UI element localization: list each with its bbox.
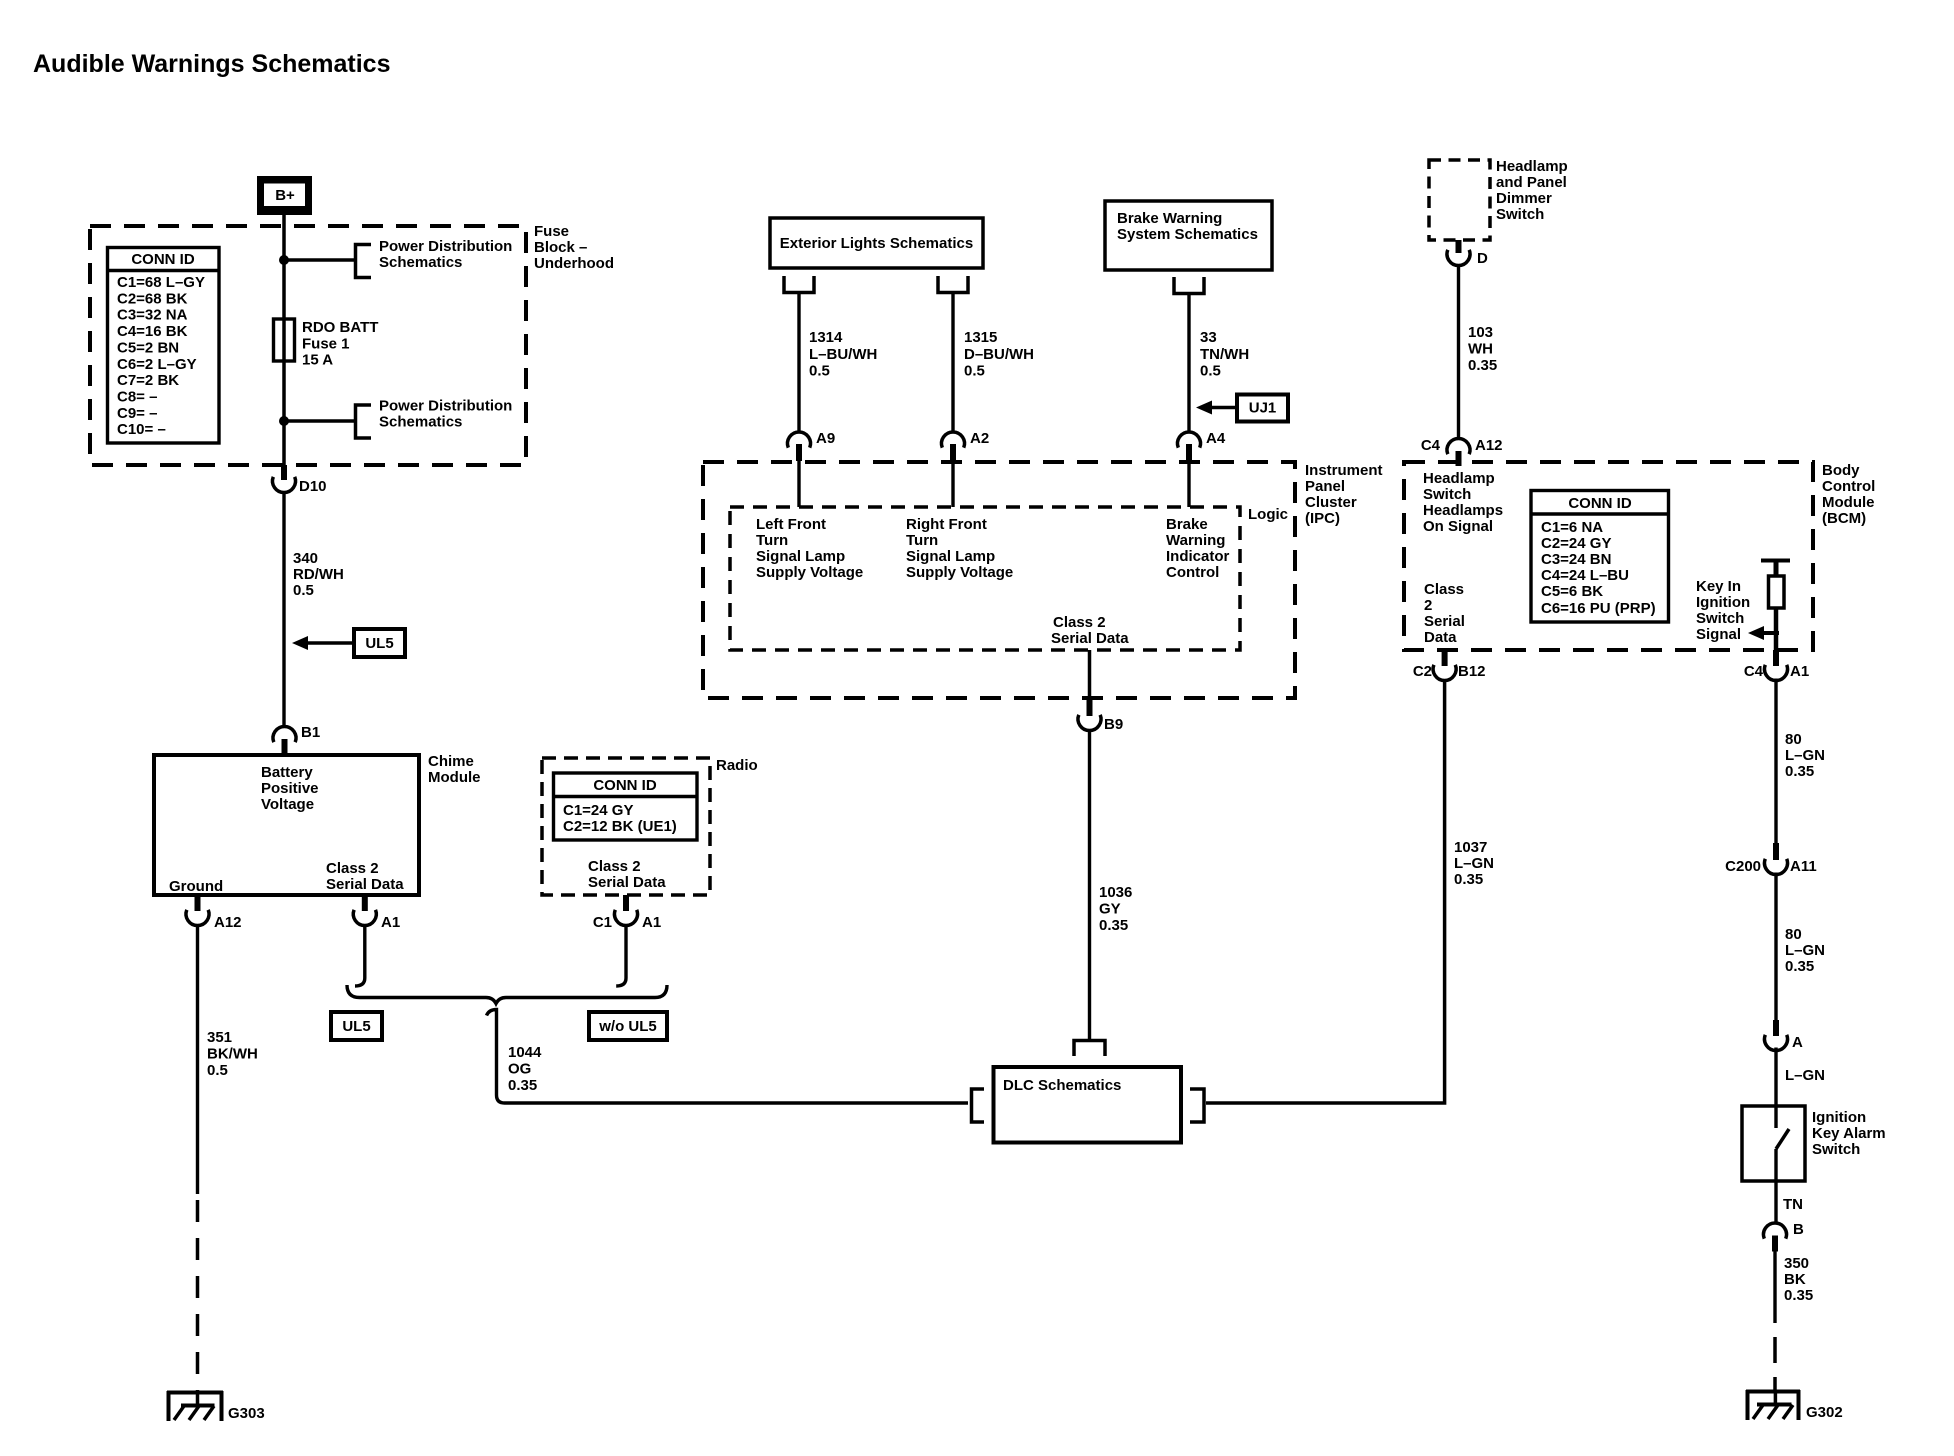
svg-text:103: 103 bbox=[1468, 324, 1493, 341]
dashed ground wire segment bbox=[196, 1200, 200, 1391]
label Power Distribution Schematics 1 bbox=[379, 238, 512, 271]
svg-text:Chime: Chime bbox=[428, 753, 474, 770]
svg-text:A1: A1 bbox=[642, 914, 661, 931]
svg-text:1314: 1314 bbox=[809, 329, 843, 346]
headlamp and panel dimmer switch dashed box bbox=[1429, 160, 1490, 240]
svg-text:340: 340 bbox=[293, 550, 318, 567]
svg-text:C5=6 BK: C5=6 BK bbox=[1541, 583, 1603, 600]
svg-text:Control: Control bbox=[1166, 564, 1219, 581]
svg-text:BK/WH: BK/WH bbox=[207, 1046, 258, 1063]
wire 1315 D-BU/WH bbox=[951, 294, 954, 432]
svg-text:Switch: Switch bbox=[1696, 610, 1744, 627]
fuse block underhood dashed box bbox=[90, 226, 526, 465]
svg-text:C1=68 L–GY: C1=68 L–GY bbox=[117, 274, 205, 291]
svg-text:351: 351 bbox=[207, 1029, 232, 1046]
ground G302 bbox=[1746, 1390, 1843, 1421]
label Power Distribution Schematics 2 bbox=[379, 398, 512, 431]
svg-text:Battery: Battery bbox=[261, 764, 313, 781]
svg-text:Class 2: Class 2 bbox=[1053, 614, 1106, 631]
UL5 option arrow and box bbox=[292, 629, 405, 657]
wire IPC class 2 down to B9 bbox=[1088, 650, 1092, 701]
connector C4/A12 (BCM top) bbox=[1421, 437, 1503, 466]
svg-text:Audible Warnings Schematics: Audible Warnings Schematics bbox=[33, 50, 390, 78]
wire TN out of switch bbox=[1774, 1149, 1777, 1223]
svg-text:A11: A11 bbox=[1790, 858, 1817, 875]
svg-text:CONN ID: CONN ID bbox=[131, 251, 195, 268]
connector B1 bbox=[273, 724, 320, 755]
svg-text:C3=24 BN: C3=24 BN bbox=[1541, 551, 1611, 568]
connector C200/A11 bbox=[1725, 843, 1817, 875]
wire radio A1 down to splice brace bbox=[616, 927, 626, 987]
label Instrument Panel Cluster (IPC) bbox=[1305, 462, 1383, 527]
svg-text:Serial Data: Serial Data bbox=[1051, 630, 1129, 647]
svg-text:D10: D10 bbox=[299, 478, 327, 495]
value label 351 BK/WH 0.5 bbox=[207, 1029, 258, 1079]
label Class 2 Serial Data (radio) bbox=[588, 858, 666, 891]
key in signal arrow bbox=[1748, 626, 1779, 640]
power distribution tab 1 bbox=[356, 245, 372, 278]
label Left Front Turn Signal Lamp Supply Voltage bbox=[756, 516, 863, 581]
svg-text:L–GN: L–GN bbox=[1454, 855, 1494, 872]
svg-text:Underhood: Underhood bbox=[534, 255, 614, 272]
svg-text:1315: 1315 bbox=[964, 329, 997, 346]
svg-text:Module: Module bbox=[1822, 494, 1875, 511]
wire A9 into IPC bbox=[797, 461, 800, 507]
svg-text:1036: 1036 bbox=[1099, 884, 1132, 901]
svg-text:2: 2 bbox=[1424, 597, 1432, 614]
wire 80 L-GN (lower) bbox=[1774, 873, 1777, 1022]
value label 80 L-GN 0.35 lower bbox=[1785, 926, 1825, 975]
svg-text:w/o UL5: w/o UL5 bbox=[598, 1018, 657, 1035]
svg-text:L–GN: L–GN bbox=[1785, 942, 1825, 959]
svg-text:Supply Voltage: Supply Voltage bbox=[756, 564, 863, 581]
wire A4 into IPC bbox=[1187, 461, 1190, 507]
svg-text:C4=16 BK: C4=16 BK bbox=[117, 323, 188, 340]
svg-text:Warning: Warning bbox=[1166, 532, 1225, 549]
dashed ground wire segment (right) bbox=[1773, 1337, 1777, 1391]
connector A4 bbox=[1178, 430, 1226, 461]
svg-text:Logic: Logic bbox=[1248, 506, 1288, 523]
svg-text:80: 80 bbox=[1785, 926, 1802, 943]
svg-text:B1: B1 bbox=[301, 724, 320, 741]
svg-text:Left Front: Left Front bbox=[756, 516, 826, 533]
svg-text:Schematics: Schematics bbox=[379, 414, 462, 431]
svg-text:B+: B+ bbox=[275, 187, 295, 204]
svg-text:Positive: Positive bbox=[261, 780, 319, 797]
value label 1036 GY 0.35 bbox=[1099, 884, 1132, 934]
IPC logic dashed box bbox=[730, 507, 1240, 650]
svg-text:OG: OG bbox=[508, 1061, 531, 1078]
svg-text:(BCM): (BCM) bbox=[1822, 510, 1866, 527]
svg-text:Module: Module bbox=[428, 769, 481, 786]
svg-text:Switch: Switch bbox=[1496, 206, 1544, 223]
value label 1037 L-GN 0.35 bbox=[1454, 839, 1494, 888]
svg-text:C5=2 BN: C5=2 BN bbox=[117, 339, 179, 356]
CONN ID table (BCM) bbox=[1531, 491, 1669, 623]
connector C2/B12 (BCM bottom left) bbox=[1413, 650, 1486, 681]
svg-text:0.5: 0.5 bbox=[809, 363, 830, 380]
svg-text:CONN ID: CONN ID bbox=[593, 777, 657, 794]
svg-text:1044: 1044 bbox=[508, 1044, 542, 1061]
chime module box bbox=[154, 755, 419, 895]
value label 1044 OG 0.35 bbox=[508, 1044, 542, 1094]
svg-text:Dimmer: Dimmer bbox=[1496, 190, 1552, 207]
svg-text:C1: C1 bbox=[593, 914, 612, 931]
svg-text:C4: C4 bbox=[1744, 663, 1764, 680]
svg-text:and Panel: and Panel bbox=[1496, 174, 1567, 191]
option tag UL5 bbox=[331, 1012, 382, 1040]
svg-text:Brake: Brake bbox=[1166, 516, 1208, 533]
tab under exterior lights box left bbox=[784, 276, 814, 293]
svg-text:Serial Data: Serial Data bbox=[326, 876, 404, 893]
svg-text:Key Alarm: Key Alarm bbox=[1812, 1125, 1886, 1142]
svg-text:350: 350 bbox=[1784, 1255, 1809, 1272]
svg-text:Ground: Ground bbox=[169, 878, 223, 895]
svg-text:C2=68 BK: C2=68 BK bbox=[117, 290, 188, 307]
svg-text:(IPC): (IPC) bbox=[1305, 510, 1340, 527]
B+ power symbol bbox=[257, 176, 312, 215]
svg-text:Signal Lamp: Signal Lamp bbox=[756, 548, 845, 565]
svg-text:Ignition: Ignition bbox=[1812, 1109, 1866, 1126]
svg-text:L–BU/WH: L–BU/WH bbox=[809, 346, 877, 363]
svg-text:80: 80 bbox=[1785, 731, 1802, 748]
wire 1314 L-BU/WH bbox=[797, 294, 800, 432]
svg-text:Headlamps: Headlamps bbox=[1423, 502, 1503, 519]
splice brace joining UL5 / w/o UL5 options bbox=[347, 985, 667, 1004]
connector D bbox=[1447, 240, 1488, 267]
svg-text:C8= –: C8= – bbox=[117, 389, 157, 406]
wire D10 to B1, circuit 340 RD/WH bbox=[282, 494, 285, 727]
wire B+ to D10 bbox=[282, 215, 286, 466]
svg-text:Control: Control bbox=[1822, 478, 1875, 495]
BCM internal pull-up resistor bbox=[1761, 561, 1790, 652]
svg-text:0.35: 0.35 bbox=[508, 1077, 537, 1094]
wire chime A1 down to splice brace bbox=[355, 927, 365, 987]
svg-text:C9= –: C9= – bbox=[117, 405, 157, 422]
svg-text:GY: GY bbox=[1099, 901, 1121, 918]
wire 80 L-GN (upper) bbox=[1774, 679, 1777, 845]
svg-text:Schematics: Schematics bbox=[379, 254, 462, 271]
svg-text:Switch: Switch bbox=[1812, 1141, 1860, 1158]
svg-text:L–GN: L–GN bbox=[1785, 747, 1825, 764]
connector D10 bbox=[273, 465, 327, 495]
UJ1 option arrow and box bbox=[1196, 395, 1288, 422]
svg-text:Panel: Panel bbox=[1305, 478, 1345, 495]
svg-text:C6=16 PU (PRP): C6=16 PU (PRP) bbox=[1541, 600, 1656, 617]
wire to power distribution tab 2 bbox=[284, 419, 355, 423]
wire to power distribution tab 1 bbox=[284, 258, 355, 262]
svg-text:L–GN: L–GN bbox=[1785, 1067, 1825, 1084]
svg-text:Block –: Block – bbox=[534, 239, 587, 256]
svg-text:0.35: 0.35 bbox=[1454, 871, 1483, 888]
svg-text:A9: A9 bbox=[816, 430, 835, 447]
tab under exterior lights box right bbox=[938, 276, 968, 293]
svg-text:Brake Warning: Brake Warning bbox=[1117, 210, 1222, 227]
svg-text:Class 2: Class 2 bbox=[588, 858, 641, 875]
svg-text:1037: 1037 bbox=[1454, 839, 1487, 856]
label Class 2 Serial Data (IPC) bbox=[1051, 614, 1129, 647]
wire 103 WH bbox=[1457, 267, 1460, 440]
value label 80 L-GN 0.35 upper bbox=[1785, 731, 1825, 780]
junction dot lower bbox=[279, 416, 289, 426]
svg-text:0.5: 0.5 bbox=[293, 582, 314, 599]
label Fuse Block - Underhood bbox=[534, 223, 614, 272]
connector A (ignition key alarm switch) bbox=[1765, 1020, 1804, 1051]
connector A12 (chime ground) bbox=[186, 895, 242, 931]
svg-text:Key In: Key In bbox=[1696, 578, 1741, 595]
svg-text:0.5: 0.5 bbox=[964, 363, 985, 380]
connector C4/A1 (BCM bottom right) bbox=[1744, 650, 1809, 681]
svg-text:TN: TN bbox=[1783, 1196, 1803, 1213]
svg-text:A: A bbox=[1792, 1034, 1803, 1051]
svg-text:0.35: 0.35 bbox=[1099, 917, 1128, 934]
svg-text:Exterior Lights Schematics: Exterior Lights Schematics bbox=[780, 235, 973, 252]
svg-text:G302: G302 bbox=[1806, 1404, 1843, 1421]
svg-text:System Schematics: System Schematics bbox=[1117, 226, 1258, 243]
svg-text:Instrument: Instrument bbox=[1305, 462, 1383, 479]
merged wire 1044 OG down and right to DLC bbox=[487, 1010, 969, 1104]
label Headlamp Switch Headlamps On Signal bbox=[1423, 470, 1503, 535]
value label 1315 D-BU/WH 0.5 bbox=[964, 329, 1034, 380]
svg-text:DLC Schematics: DLC Schematics bbox=[1003, 1077, 1121, 1094]
wire 351 BK/WH to G303 bbox=[196, 927, 199, 1195]
svg-text:C4=24 L–BU: C4=24 L–BU bbox=[1541, 567, 1629, 584]
wire 350 BK to G302 bbox=[1773, 1251, 1776, 1323]
svg-text:Right Front: Right Front bbox=[906, 516, 987, 533]
svg-text:Class 2: Class 2 bbox=[326, 860, 379, 877]
connector A2 bbox=[942, 430, 990, 461]
value label 350 BK 0.35 bbox=[1784, 1255, 1813, 1304]
connector A9 bbox=[788, 430, 836, 461]
svg-text:A4: A4 bbox=[1206, 430, 1226, 447]
svg-text:Radio: Radio bbox=[716, 757, 758, 774]
svg-text:0.5: 0.5 bbox=[1200, 363, 1221, 380]
svg-text:RDO BATT: RDO BATT bbox=[302, 319, 378, 336]
svg-text:C2=12 BK (UE1): C2=12 BK (UE1) bbox=[563, 818, 677, 835]
svg-text:Serial Data: Serial Data bbox=[588, 874, 666, 891]
svg-text:B: B bbox=[1793, 1221, 1804, 1238]
svg-text:Indicator: Indicator bbox=[1166, 548, 1230, 565]
svg-text:A1: A1 bbox=[381, 914, 400, 931]
svg-text:A12: A12 bbox=[214, 914, 242, 931]
svg-text:C200: C200 bbox=[1725, 858, 1761, 875]
ground G303 bbox=[167, 1391, 265, 1422]
svg-text:C2=24 GY: C2=24 GY bbox=[1541, 535, 1611, 552]
wire A2 into IPC bbox=[951, 461, 954, 507]
svg-text:UL5: UL5 bbox=[365, 635, 393, 652]
brake warning system schematics box bbox=[1105, 201, 1272, 270]
label Key In Ignition Switch Signal bbox=[1696, 578, 1750, 643]
connector B9 bbox=[1078, 700, 1123, 733]
power distribution tab 2 bbox=[356, 405, 372, 438]
label Class 2 Serial Data (chime) bbox=[326, 860, 404, 893]
connector A1 (chime class 2) bbox=[353, 895, 400, 931]
label Body Control Module (BCM) bbox=[1822, 462, 1875, 527]
label Chime Module bbox=[428, 753, 481, 786]
svg-text:0.35: 0.35 bbox=[1468, 357, 1497, 374]
svg-text:D–BU/WH: D–BU/WH bbox=[964, 346, 1034, 363]
svg-text:G303: G303 bbox=[228, 1405, 265, 1422]
svg-text:RD/WH: RD/WH bbox=[293, 566, 344, 583]
svg-text:Ignition: Ignition bbox=[1696, 594, 1750, 611]
connector B bbox=[1764, 1221, 1805, 1252]
svg-text:Body: Body bbox=[1822, 462, 1860, 479]
svg-text:Voltage: Voltage bbox=[261, 796, 314, 813]
tab above DLC box bbox=[1074, 1041, 1105, 1057]
value label 33 TN/WH 0.5 bbox=[1200, 329, 1249, 380]
CONN ID table (fuse block) bbox=[108, 248, 220, 444]
IPC outer dashed box bbox=[703, 462, 1295, 698]
svg-text:C7=2 BK: C7=2 BK bbox=[117, 372, 179, 389]
svg-text:C3=32 NA: C3=32 NA bbox=[117, 307, 188, 324]
tab right of DLC box bbox=[1190, 1089, 1204, 1122]
svg-text:CONN ID: CONN ID bbox=[1568, 495, 1632, 512]
ignition key alarm switch box bbox=[1742, 1106, 1886, 1181]
svg-text:Turn: Turn bbox=[756, 532, 788, 549]
svg-text:B9: B9 bbox=[1104, 716, 1123, 733]
svg-text:C1=24 GY: C1=24 GY bbox=[563, 802, 633, 819]
svg-text:C2: C2 bbox=[1413, 663, 1432, 680]
svg-text:Fuse 1: Fuse 1 bbox=[302, 336, 350, 353]
svg-text:A1: A1 bbox=[1790, 663, 1809, 680]
junction dot upper bbox=[279, 255, 289, 265]
wire 33 TN/WH bbox=[1187, 295, 1190, 432]
svg-text:0.35: 0.35 bbox=[1785, 958, 1814, 975]
tab left of DLC box bbox=[972, 1089, 985, 1122]
svg-text:C1=6 NA: C1=6 NA bbox=[1541, 519, 1603, 536]
label Right Front Turn Signal Lamp Supply Voltage bbox=[906, 516, 1013, 581]
svg-text:33: 33 bbox=[1200, 329, 1217, 346]
svg-text:Class: Class bbox=[1424, 581, 1464, 598]
DLC schematics box bbox=[994, 1067, 1182, 1143]
svg-text:A2: A2 bbox=[970, 430, 989, 447]
fuse RDO BATT Fuse 1 15 A bbox=[274, 319, 295, 361]
svg-text:UL5: UL5 bbox=[342, 1018, 370, 1035]
value label 1314 L-BU/WH 0.5 bbox=[809, 329, 877, 380]
svg-text:Headlamp: Headlamp bbox=[1496, 158, 1568, 175]
svg-text:C6=2 L–GY: C6=2 L–GY bbox=[117, 356, 197, 373]
svg-text:Headlamp: Headlamp bbox=[1423, 470, 1495, 487]
option tag w/o UL5 bbox=[589, 1012, 667, 1040]
wire L-GN into switch bbox=[1774, 1048, 1777, 1129]
value label 340 RD/WH 0.5 bbox=[293, 550, 344, 599]
svg-text:TN/WH: TN/WH bbox=[1200, 346, 1249, 363]
svg-text:C4: C4 bbox=[1421, 437, 1441, 454]
svg-text:D: D bbox=[1477, 250, 1488, 267]
label Headlamp and Panel Dimmer Switch bbox=[1496, 158, 1568, 223]
svg-text:Turn: Turn bbox=[906, 532, 938, 549]
connector C1/A1 (radio) bbox=[593, 895, 661, 931]
svg-text:0.5: 0.5 bbox=[207, 1062, 228, 1079]
svg-text:On Signal: On Signal bbox=[1423, 518, 1493, 535]
BCM dashed box bbox=[1404, 462, 1813, 650]
svg-text:15 A: 15 A bbox=[302, 352, 333, 369]
svg-text:C10= –: C10= – bbox=[117, 421, 166, 438]
svg-text:Switch: Switch bbox=[1423, 486, 1471, 503]
svg-text:Power Distribution: Power Distribution bbox=[379, 238, 512, 255]
svg-text:Power Distribution: Power Distribution bbox=[379, 398, 512, 415]
CONN ID table (radio) bbox=[554, 773, 698, 840]
svg-text:0.35: 0.35 bbox=[1785, 763, 1814, 780]
svg-text:B12: B12 bbox=[1458, 663, 1486, 680]
svg-text:UJ1: UJ1 bbox=[1249, 400, 1277, 417]
svg-text:BK: BK bbox=[1784, 1271, 1806, 1288]
svg-text:Supply Voltage: Supply Voltage bbox=[906, 564, 1013, 581]
svg-text:Data: Data bbox=[1424, 629, 1457, 646]
svg-text:Cluster: Cluster bbox=[1305, 494, 1357, 511]
svg-text:WH: WH bbox=[1468, 341, 1493, 358]
wire DLC to BCM B12 riser bbox=[1206, 679, 1445, 1103]
svg-text:Fuse: Fuse bbox=[534, 223, 569, 240]
svg-text:A12: A12 bbox=[1475, 437, 1503, 454]
svg-text:Serial: Serial bbox=[1424, 613, 1465, 630]
value label 103 WH 0.35 bbox=[1468, 324, 1497, 374]
exterior lights schematics box bbox=[770, 218, 983, 268]
wire 1036 GY to DLC bbox=[1088, 732, 1091, 1042]
svg-text:Signal: Signal bbox=[1696, 626, 1741, 643]
label Battery Positive Voltage bbox=[261, 764, 319, 813]
svg-text:0.35: 0.35 bbox=[1784, 1287, 1813, 1304]
label Brake Warning Indicator Control bbox=[1166, 516, 1230, 581]
svg-text:Signal Lamp: Signal Lamp bbox=[906, 548, 995, 565]
label Class 2 Serial Data (BCM) bbox=[1424, 581, 1465, 646]
radio dashed box bbox=[542, 758, 710, 895]
tab under brake warning box bbox=[1174, 277, 1204, 294]
